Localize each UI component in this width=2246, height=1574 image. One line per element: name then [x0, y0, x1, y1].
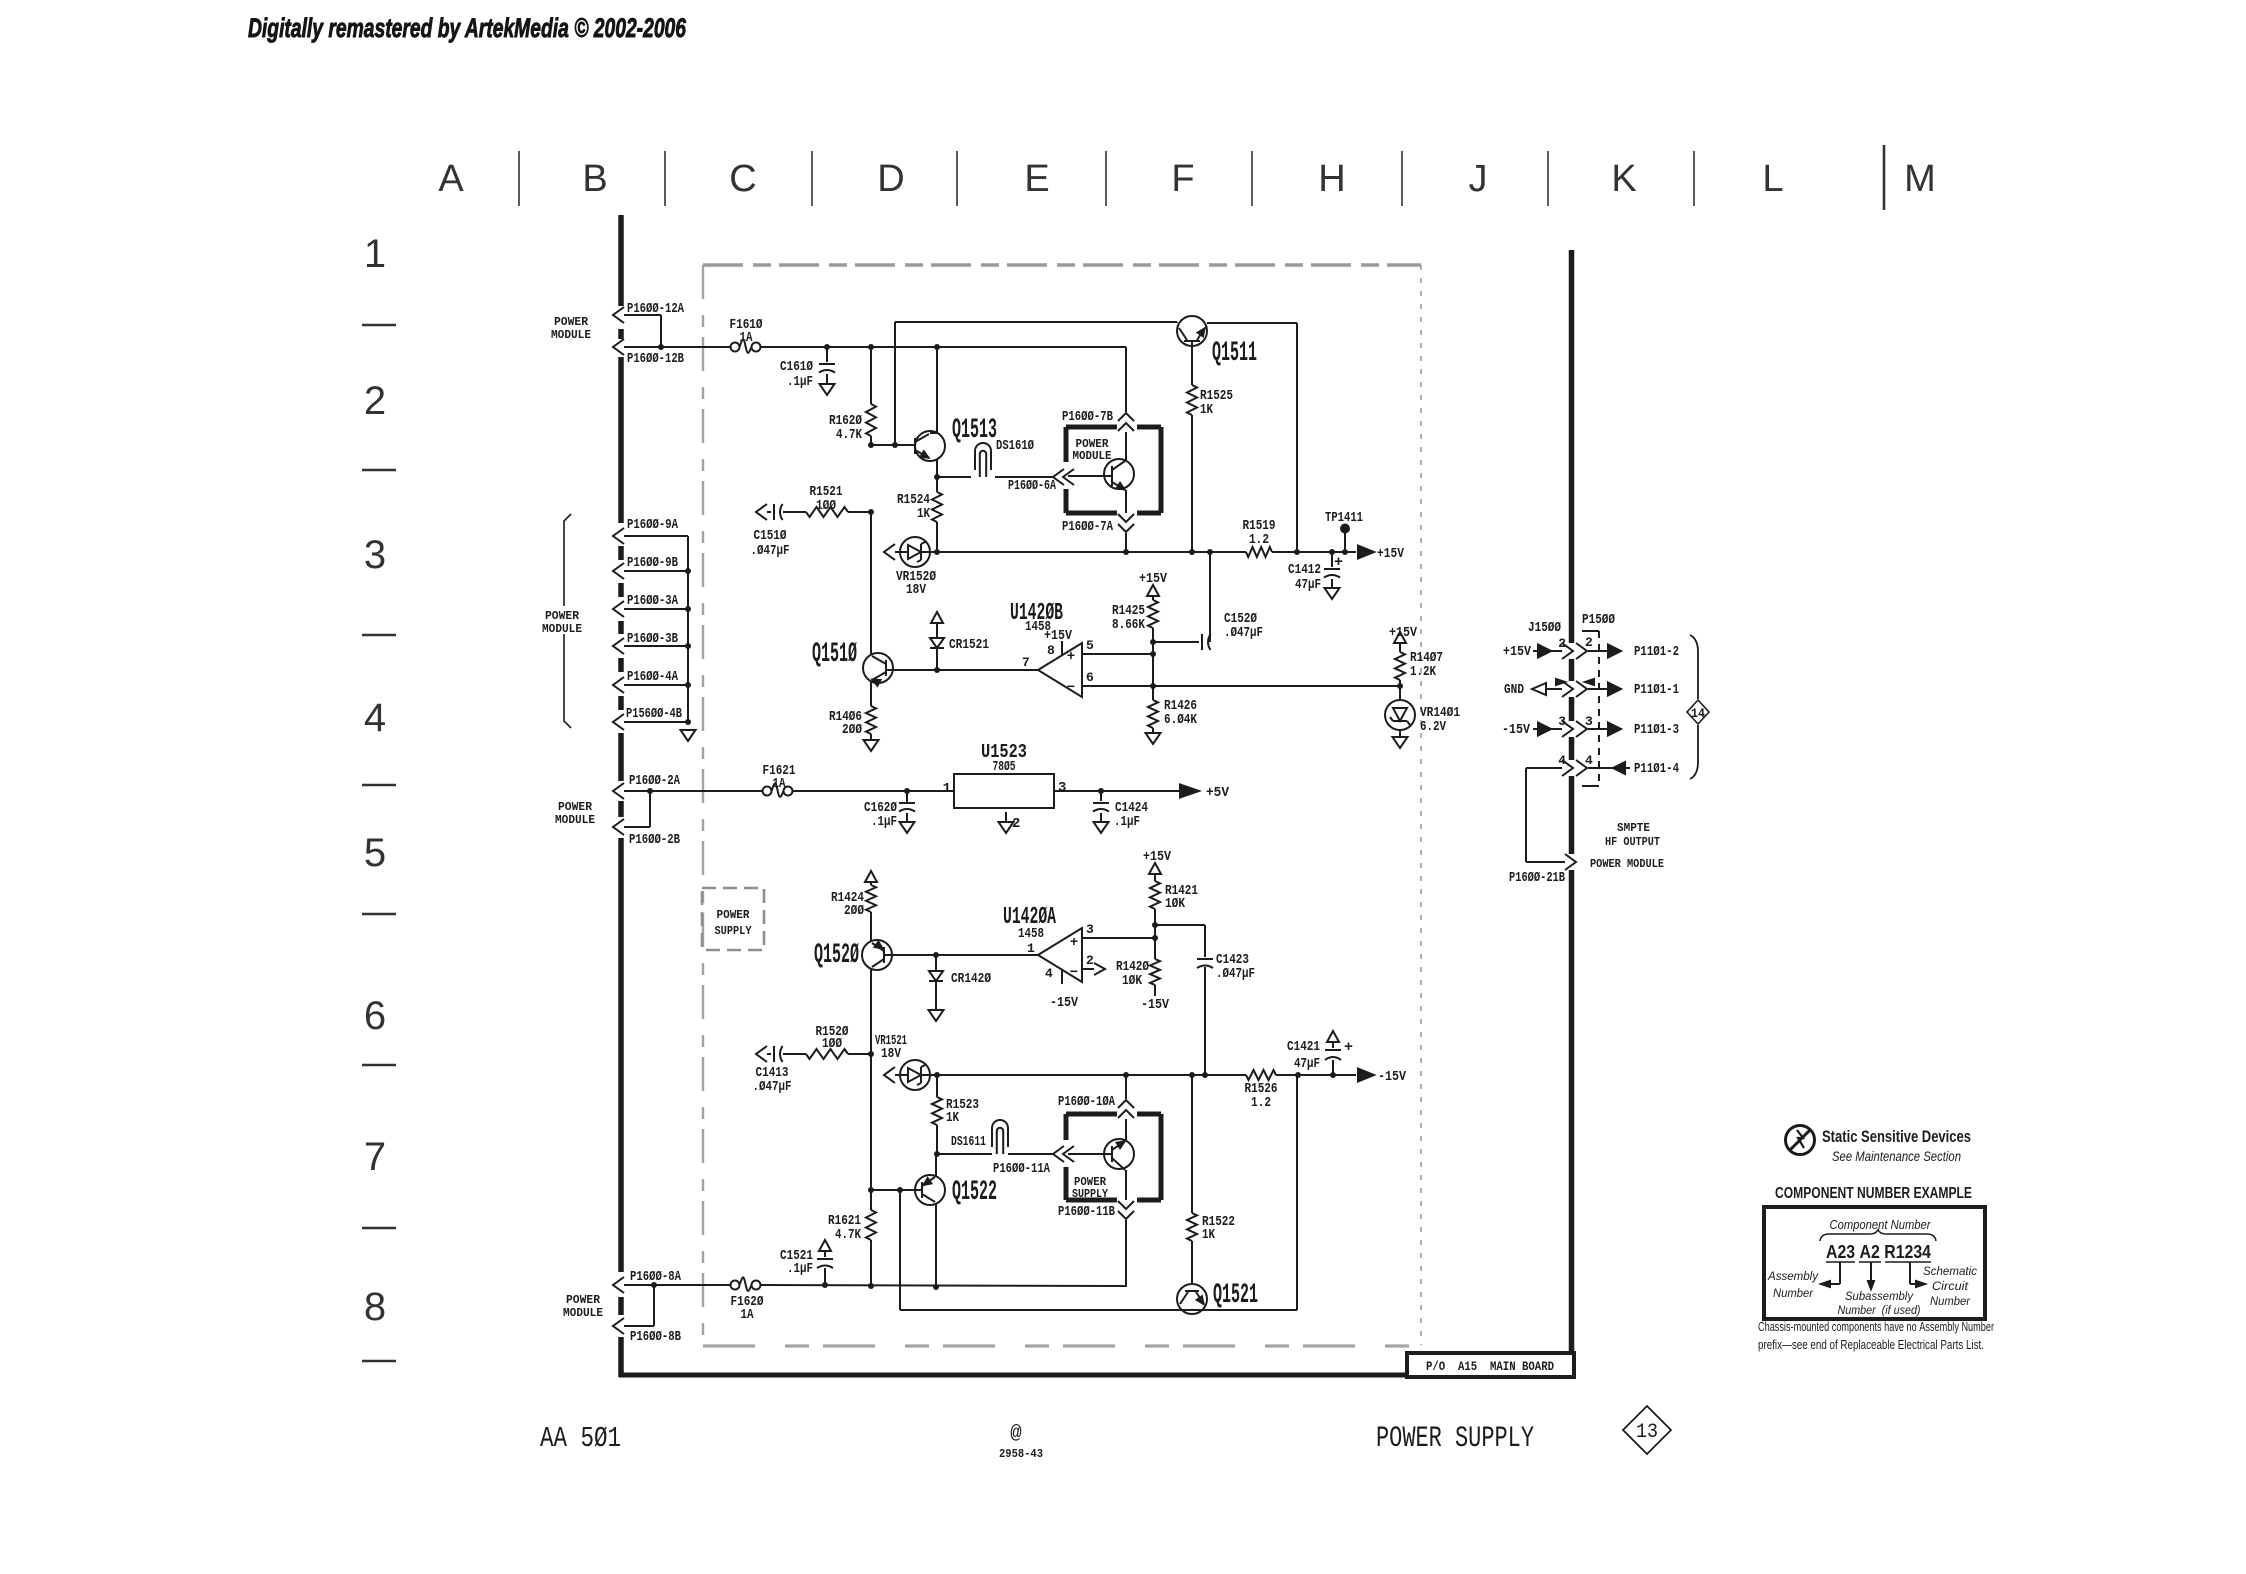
svg-text:CR1521: CR1521 [949, 637, 989, 653]
svg-text:MODULE: MODULE [542, 622, 582, 636]
svg-text:4.7K: 4.7K [836, 427, 862, 443]
wire Q1510 base to opamp [886, 669, 1038, 671]
transistor Q1522 [870, 1054, 872, 1190]
svg-text:Chassis-mounted components hav: Chassis-mounted components have no Assem… [1758, 1319, 1994, 1334]
svg-text:@: @ [1010, 1422, 1022, 1444]
resistor R1621 [870, 1190, 872, 1210]
connector P1600-12B [613, 339, 624, 355]
fuse F1620 [731, 1281, 740, 1290]
svg-text:DS161Ø: DS161Ø [996, 438, 1034, 454]
wire Q1513 emitter node [936, 459, 938, 477]
zener VR1520 [884, 544, 895, 560]
svg-text:POWER: POWER [566, 1293, 601, 1307]
svg-text:-15V: -15V [1378, 1069, 1406, 1085]
svg-text:K: K [1611, 158, 1636, 200]
resistor R1425 [1147, 585, 1159, 596]
svg-text:13: 13 [1636, 1421, 1658, 1444]
op-amp U1420B [1038, 643, 1082, 697]
+5V output arrow [1180, 785, 1199, 798]
connector P1600-9B [613, 563, 624, 579]
P1500 dashed outline [1598, 631, 1600, 786]
svg-text:MODULE: MODULE [551, 328, 591, 342]
resistor R1426 [1152, 654, 1154, 700]
resistor R1406 [866, 706, 876, 734]
svg-text:7: 7 [364, 1135, 386, 1179]
svg-text:1ØØ: 1ØØ [822, 1036, 842, 1052]
lamp DS1610 [975, 443, 991, 470]
svg-text:C: C [729, 158, 756, 200]
svg-text:18V: 18V [881, 1046, 901, 1062]
wire opamp pin6 [1082, 685, 1400, 687]
wire riser to Q1511 [894, 322, 896, 445]
svg-text:SUPPLY: SUPPLY [1072, 1188, 1108, 1201]
svg-text:3: 3 [1086, 922, 1094, 937]
connector P1600-3B [613, 638, 624, 654]
resistor R1620 [870, 347, 872, 404]
transistor Q1520 [862, 940, 892, 970]
svg-text:POWER: POWER [558, 800, 593, 814]
svg-text:.1µF: .1µF [787, 374, 813, 390]
svg-text:SUPPLY: SUPPLY [715, 924, 753, 938]
zener VR1401 [1399, 686, 1401, 700]
svg-text:M: M [1904, 158, 1936, 200]
svg-text:P11Ø1-4: P11Ø1-4 [1634, 761, 1679, 777]
svg-text:E: E [1024, 158, 1049, 200]
svg-text:C161Ø: C161Ø [780, 359, 813, 375]
svg-text:MODULE: MODULE [563, 1306, 603, 1320]
wire Q1522 collector [935, 1203, 937, 1287]
svg-text:P16ØØ-2A: P16ØØ-2A [629, 773, 680, 789]
svg-text:1K: 1K [917, 506, 930, 522]
svg-text:+: + [1344, 1039, 1353, 1056]
-18V feed rail [761, 1285, 1126, 1286]
transistor Q1511 [1176, 322, 1178, 323]
svg-text:P11Ø1-2: P11Ø1-2 [1634, 644, 1679, 660]
svg-text:F: F [1171, 158, 1194, 200]
svg-text:2: 2 [1558, 636, 1566, 651]
capacitor C1423 [1155, 924, 1205, 926]
svg-text:1.2: 1.2 [1251, 1095, 1271, 1111]
diode CR1420 [935, 955, 937, 971]
connector P1600-11A chevrons [1053, 1146, 1064, 1162]
svg-text:14: 14 [1691, 706, 1705, 721]
svg-text:HF OUTPUT: HF OUTPUT [1605, 835, 1660, 849]
wire Q1520 base to opamp U1420A [884, 954, 1038, 956]
capacitor C1610 [826, 347, 828, 362]
connector P1600-21B SMPTE output [1565, 854, 1576, 870]
svg-text:78Ø5: 78Ø5 [993, 759, 1016, 775]
svg-text:+15V: +15V [1044, 628, 1072, 644]
svg-text:POWER: POWER [545, 609, 580, 623]
wire DS1611 node [934, 1151, 940, 1157]
svg-text:47µF: 47µF [1294, 1056, 1320, 1072]
svg-text:5: 5 [1086, 638, 1094, 653]
svg-text:4.7K: 4.7K [835, 1227, 861, 1243]
svg-text:Q1522: Q1522 [952, 1177, 997, 1208]
+15V output arrow [1358, 546, 1374, 559]
svg-text:3: 3 [1558, 714, 1566, 729]
wire fused +18V input [624, 346, 730, 348]
svg-text:1K: 1K [1200, 402, 1213, 418]
svg-text:P16ØØ-12B: P16ØØ-12B [627, 351, 684, 367]
svg-text:-15V: -15V [1141, 997, 1169, 1013]
svg-text:L: L [1762, 158, 1783, 200]
svg-text:47µF: 47µF [1295, 577, 1321, 593]
wire Q1511 collector loop [1296, 323, 1298, 552]
svg-text:1ØK: 1ØK [1165, 896, 1185, 912]
svg-text:P/O A15 MAIN BOARD: P/O A15 MAIN BOARD [1426, 1359, 1554, 1374]
main -15V rail [937, 1074, 1246, 1076]
svg-text:.1µF: .1µF [787, 1261, 813, 1277]
capacitor C1510 with off-board arrow [756, 504, 767, 520]
svg-text:1ØK: 1ØK [1122, 973, 1142, 989]
wire opamp pin3 [1082, 937, 1155, 939]
svg-text:+: + [1334, 554, 1343, 571]
svg-text:DS1611: DS1611 [951, 1134, 986, 1150]
capacitor C1421 [1327, 1031, 1339, 1042]
svg-text:-15V: -15V [1502, 722, 1530, 738]
svg-text:6.Ø4K: 6.Ø4K [1164, 712, 1197, 728]
module riser wire [1125, 347, 1127, 412]
resistor R1407 [1394, 632, 1406, 643]
svg-text:2: 2 [364, 379, 386, 423]
connector P1600-3A [613, 601, 624, 617]
svg-text:MODULE: MODULE [555, 813, 595, 827]
module pass transistor [1104, 459, 1134, 489]
capacitor C1520 [1150, 639, 1156, 645]
capacitor C1413 with off-board arrow [756, 1046, 767, 1062]
resistor R1523 [936, 1075, 938, 1097]
svg-text:18V: 18V [906, 582, 926, 598]
svg-text:1: 1 [364, 232, 386, 276]
svg-text:2: 2 [1012, 816, 1020, 832]
svg-text:4: 4 [1558, 753, 1566, 768]
svg-text:B: B [582, 158, 607, 200]
ground bus of connector group [687, 536, 689, 722]
svg-text:1K: 1K [1202, 1227, 1215, 1243]
connector P15600-4B [613, 714, 624, 730]
svg-text:+5V: +5V [1206, 785, 1230, 801]
wire F1610 to module riser [761, 346, 1126, 348]
connector P1600-2A [613, 783, 624, 799]
svg-text:Circuit: Circuit [1932, 1279, 1969, 1293]
wire fuse to U1523 [793, 790, 954, 792]
svg-text:Number: Number [1773, 1286, 1814, 1300]
svg-text:Number (if used): Number (if used) [1838, 1303, 1921, 1317]
svg-text:J: J [1469, 158, 1488, 200]
svg-text:3: 3 [364, 533, 386, 577]
wire to fuse F1621 [624, 790, 762, 792]
svg-text:Static Sensitive Devices: Static Sensitive Devices [1822, 1127, 1971, 1146]
svg-text:6: 6 [1086, 670, 1094, 685]
svg-text:A: A [438, 158, 464, 200]
svg-text:3: 3 [1058, 780, 1066, 796]
capacitor C1521 [819, 1240, 831, 1251]
wire to fuse F1620 [624, 1284, 730, 1286]
svg-text:Component Number: Component Number [1830, 1217, 1932, 1232]
svg-text:POWER: POWER [717, 908, 751, 922]
svg-text:See Maintenance Section: See Maintenance Section [1832, 1148, 1961, 1164]
svg-text:COMPONENT NUMBER EXAMPLE: COMPONENT NUMBER EXAMPLE [1775, 1185, 1972, 1202]
svg-text:GND: GND [1504, 682, 1524, 698]
resistor R1421 [1149, 863, 1161, 874]
svg-text:P16ØØ-1ØA: P16ØØ-1ØA [1058, 1094, 1115, 1110]
resistor R1526 [1246, 1070, 1276, 1080]
connector P1600-6A chevrons [1053, 469, 1064, 485]
main +15V rail [937, 551, 1246, 553]
svg-text:8: 8 [1047, 643, 1055, 658]
resistor R1520 [806, 1049, 848, 1059]
svg-text:A23 A2 R1234: A23 A2 R1234 [1826, 1242, 1931, 1262]
svg-text:1.2: 1.2 [1249, 532, 1269, 548]
svg-text:MODULE: MODULE [1073, 449, 1112, 463]
capacitor C1412 [1331, 552, 1333, 567]
svg-text:2958-43: 2958-43 [999, 1447, 1043, 1461]
connector P1600-8B [613, 1318, 624, 1334]
svg-text:8: 8 [364, 1285, 386, 1329]
svg-text:Subassembly: Subassembly [1845, 1289, 1914, 1303]
fuse F1610 [731, 343, 740, 352]
svg-text:P16ØØ-9B: P16ØØ-9B [627, 555, 678, 571]
svg-text:CR142Ø: CR142Ø [951, 971, 991, 987]
svg-text:P16ØØ-6A: P16ØØ-6A [1008, 478, 1056, 494]
svg-text:P16ØØ-4A: P16ØØ-4A [627, 669, 678, 685]
component number overbrace [1820, 1229, 1936, 1241]
svg-text:5: 5 [364, 831, 386, 875]
svg-text:6.2V: 6.2V [1420, 719, 1446, 735]
wire opamp pin5 [1082, 653, 1153, 655]
svg-text:P16ØØ-11A: P16ØØ-11A [993, 1161, 1050, 1177]
svg-text:2ØØ: 2ØØ [844, 903, 864, 919]
capacitor C1620 [906, 791, 908, 802]
svg-text:H: H [1318, 158, 1345, 200]
module pass transistor 2 [1104, 1139, 1134, 1169]
inner dashed board border [702, 265, 704, 1345]
svg-text:7: 7 [1022, 655, 1030, 670]
connector P1600-4A [613, 677, 624, 693]
power supply dashed label box [702, 888, 764, 950]
-15V output arrow [1358, 1069, 1374, 1082]
svg-text:1: 1 [943, 781, 951, 797]
svg-text:.1µF: .1µF [871, 814, 897, 830]
svg-text:Q1511: Q1511 [1212, 338, 1257, 369]
svg-text:SMPTE: SMPTE [1617, 821, 1650, 835]
svg-text:Assembly: Assembly [1767, 1269, 1819, 1283]
resistor R1522 [1191, 1075, 1193, 1213]
pin 4 loop [1562, 760, 1573, 776]
svg-text:C1421: C1421 [1287, 1039, 1320, 1055]
heavy main-board bottom line [619, 1373, 1409, 1378]
svg-text:P16ØØ-7A: P16ØØ-7A [1062, 519, 1113, 535]
svg-text:C151Ø: C151Ø [754, 528, 787, 544]
wire DS1611 to P1600-11A [1008, 1153, 1053, 1155]
svg-text:+15V: +15V [1143, 849, 1171, 865]
svg-text:1K: 1K [946, 1110, 959, 1126]
svg-text:P11Ø1-3: P11Ø1-3 [1634, 722, 1679, 738]
test point TP1411 [1344, 533, 1346, 552]
svg-text:Number: Number [1930, 1294, 1971, 1308]
brace P1101 harness [1690, 635, 1698, 699]
svg-text:P15ØØ: P15ØØ [1582, 612, 1615, 628]
svg-text:P16ØØ-3A: P16ØØ-3A [627, 593, 678, 609]
component number example box [1764, 1207, 1985, 1319]
svg-text:1ØØ: 1ØØ [816, 498, 836, 514]
svg-text:Q151Ø: Q151Ø [812, 639, 857, 670]
svg-text:1458: 1458 [1018, 926, 1044, 942]
svg-text:8.66K: 8.66K [1112, 617, 1145, 633]
op-amp U1420A [1038, 928, 1082, 982]
svg-text:Digitally remastered by ArtekM: Digitally remastered by ArtekMedia © 200… [248, 13, 687, 43]
ground-return connector group P1600-9A [613, 528, 624, 544]
svg-text:.1µF: .1µF [1114, 814, 1140, 830]
transistor Q1510 [870, 512, 872, 654]
svg-text:AA 5Ø1: AA 5Ø1 [540, 1422, 621, 1455]
P/O A15 MAIN BOARD box [1407, 1353, 1574, 1377]
opamp pin4 supply [1061, 970, 1063, 984]
svg-text:+15V: +15V [1389, 625, 1417, 641]
svg-text:D: D [877, 158, 904, 200]
svg-text:2: 2 [1585, 635, 1593, 650]
connector P1600-8A [613, 1277, 624, 1293]
connector P1600-2B [613, 819, 624, 835]
svg-text:P16ØØ-21B: P16ØØ-21B [1509, 870, 1565, 886]
resistor R1525 [1191, 341, 1193, 385]
resistor R1521 [806, 507, 848, 517]
svg-text:P16ØØ-8B: P16ØØ-8B [630, 1329, 681, 1345]
resistor R1424 [865, 871, 877, 882]
ground symbol connector group [681, 730, 696, 741]
svg-text:2: 2 [1086, 953, 1094, 968]
svg-text:P16ØØ-7B: P16ØØ-7B [1062, 409, 1113, 425]
interconnect diamond 14 [1687, 700, 1709, 724]
svg-text:4: 4 [1045, 966, 1053, 981]
svg-text:C1412: C1412 [1288, 562, 1321, 578]
svg-text:-15V: -15V [1050, 995, 1078, 1011]
wire Q1521 emitter-collector rail [900, 1309, 1297, 1311]
column ticks [518, 151, 520, 206]
wire R1620 to Q1513 base [871, 444, 915, 446]
U1523 ground pin 2 [1005, 812, 1007, 822]
wire Q1522 emitter [935, 1154, 937, 1176]
fuse F1621 [763, 787, 772, 796]
svg-text:POWER: POWER [554, 315, 589, 329]
svg-text:.Ø47µF: .Ø47µF [751, 543, 790, 559]
svg-text:P16ØØ-11B: P16ØØ-11B [1058, 1204, 1115, 1220]
svg-text:−: − [1067, 680, 1075, 696]
svg-text:4: 4 [1585, 753, 1593, 768]
wire U1523 output [1055, 790, 1180, 792]
lamp DS1611 [992, 1120, 1008, 1147]
svg-text:P11Ø1-1: P11Ø1-1 [1634, 682, 1679, 698]
wire DS1610 to P1600-6A [995, 476, 1053, 478]
svg-text:TP1411: TP1411 [1325, 510, 1363, 526]
module 2 riser wire [1125, 1075, 1127, 1099]
svg-text:.Ø47µF: .Ø47µF [753, 1079, 792, 1095]
svg-text:4: 4 [364, 696, 386, 740]
svg-text:prefix—see end of Replaceable: prefix—see end of Replaceable Electrical… [1758, 1337, 1984, 1352]
svg-text:1A: 1A [773, 776, 786, 792]
capacitor C1424 [1100, 791, 1102, 801]
svg-text:Q1521: Q1521 [1213, 1280, 1258, 1311]
right power-module boundary bar [1569, 250, 1575, 643]
svg-text:Schematic: Schematic [1923, 1264, 1977, 1278]
svg-text:1A: 1A [741, 1307, 754, 1323]
svg-text:Q152Ø: Q152Ø [814, 940, 859, 971]
svg-text:POWER MODULE: POWER MODULE [1590, 857, 1664, 871]
svg-text:POWER SUPPLY: POWER SUPPLY [1376, 1422, 1534, 1456]
resistor R1524 [936, 477, 938, 492]
svg-text:P16ØØ-3B: P16ØØ-3B [627, 631, 678, 647]
svg-text:6: 6 [364, 994, 386, 1038]
svg-text:2ØØ: 2ØØ [842, 722, 862, 738]
svg-text:+15V: +15V [1139, 571, 1167, 587]
svg-text:+: + [1067, 649, 1075, 665]
row separator dashes [362, 324, 396, 326]
resistor R1519 [1246, 547, 1272, 557]
transistor Q1513 [915, 431, 945, 461]
opamp pin2 off-sheet [1082, 968, 1094, 970]
resistor R1420 [1152, 922, 1158, 928]
svg-text:P16ØØ-2B: P16ØØ-2B [629, 832, 680, 848]
svg-text:+15V: +15V [1503, 644, 1531, 660]
svg-text:.Ø47µF: .Ø47µF [1216, 966, 1255, 982]
left power-module boundary bar [618, 215, 624, 306]
svg-text:1A: 1A [740, 330, 753, 346]
svg-text:3: 3 [1585, 714, 1593, 729]
wire Q1522 base to Q1521 emitter [899, 1190, 901, 1310]
svg-text:.Ø47µF: .Ø47µF [1224, 625, 1263, 641]
svg-text:+: + [1070, 935, 1078, 951]
diode CR1521 [931, 612, 943, 623]
regulator U1523 [954, 774, 1054, 808]
static sensitive devices symbol [1786, 1126, 1815, 1155]
transistor Q1521 [1177, 1284, 1207, 1314]
svg-text:−: − [1070, 965, 1078, 981]
svg-text:Q1513: Q1513 [952, 415, 997, 446]
connector P1600-12A [613, 307, 624, 323]
svg-text:+15V: +15V [1377, 546, 1404, 562]
svg-text:1: 1 [1027, 941, 1035, 956]
sheet diamond 13 [1623, 1406, 1671, 1454]
wire Q1513 collector [936, 347, 938, 433]
svg-text:P156ØØ-4B: P156ØØ-4B [626, 706, 682, 722]
svg-text:J15ØØ: J15ØØ [1528, 620, 1561, 636]
brace connector group [564, 514, 571, 606]
zener VR1521 [884, 1067, 895, 1083]
svg-text:1.2K: 1.2K [1410, 664, 1436, 680]
svg-text:P16ØØ-9A: P16ØØ-9A [627, 517, 678, 533]
